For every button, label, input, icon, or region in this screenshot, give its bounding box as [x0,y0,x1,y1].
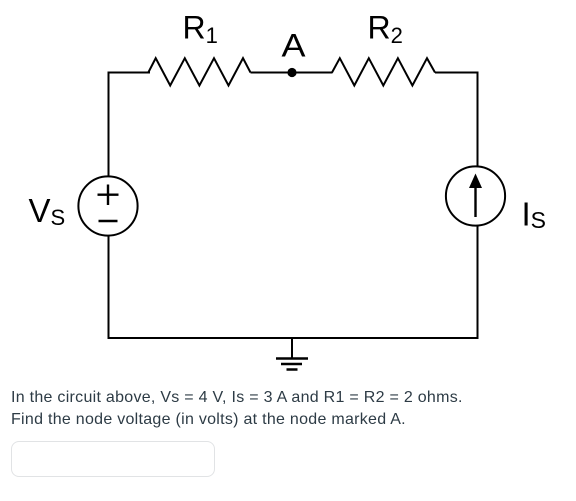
wire top-left horizontal [108,72,151,74]
ground [276,338,308,370]
resistor R2 [332,58,435,85]
current source Is [446,166,505,225]
wire R2 to top-right corner [435,72,478,74]
answer input box [11,441,215,478]
question text [11,387,571,432]
svg-text:A: A [282,28,307,64]
wire R1 to node A [251,72,333,74]
svg-text:R2: R2 [368,10,403,49]
node A [287,68,296,77]
wire left vertical lower [108,236,110,340]
svg-text:IS: IS [522,196,547,233]
svg-text:R1: R1 [183,10,218,49]
wire bottom horizontal [108,337,479,339]
voltage source Vs [78,176,137,235]
svg-text:VS: VS [29,192,66,230]
wire right vertical lower [477,226,479,340]
wire right vertical upper [477,72,479,167]
resistor R1 [148,58,250,85]
wire left vertical upper [108,72,110,177]
